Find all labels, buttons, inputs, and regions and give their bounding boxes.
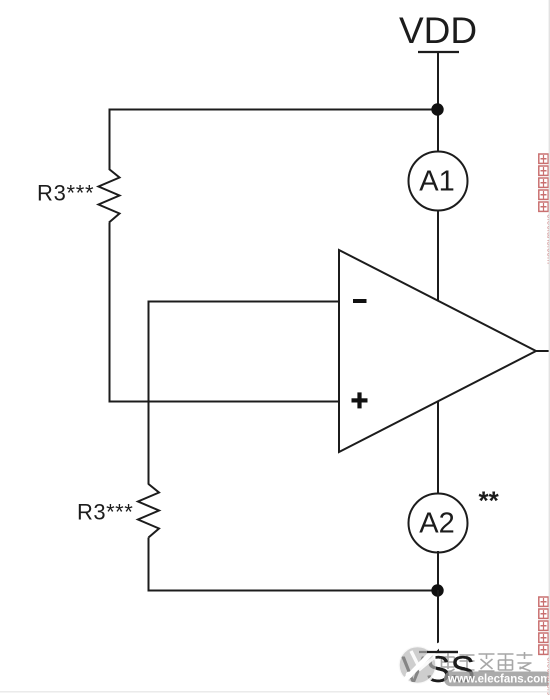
watermark logo circle bottom right xyxy=(399,645,440,684)
wire bottom horizontal to node B xyxy=(148,590,438,592)
wire resistor R3 (top) bottom down to plus input level xyxy=(109,223,111,403)
svg-text:R3***: R3*** xyxy=(37,181,94,206)
watermark url band www.elecfans.com xyxy=(444,672,550,687)
junction node B xyxy=(431,584,443,596)
wire node A horizontal to resistor R3 (top) xyxy=(110,109,438,111)
wire ammeter A2 to node B xyxy=(437,551,439,591)
VSS power rail bar xyxy=(419,651,458,653)
wire ammeter A1 to ammeter A2 through op-amp xyxy=(437,209,439,495)
wire node B to VSS rail xyxy=(437,590,439,651)
watermark chinese characters (stylized strokes) xyxy=(442,652,533,671)
wire node A down to resistor R3 top xyxy=(109,109,111,170)
VDD power rail bar xyxy=(418,51,459,53)
wire VDD rail to ammeter A1 xyxy=(437,52,439,153)
wire to op-amp plus input xyxy=(109,401,341,403)
wire op-amp output stub xyxy=(536,350,550,352)
op-amp U1 minus input symbol xyxy=(353,299,367,303)
watermark vertical red text lower right xyxy=(539,597,548,654)
svg-text:www.elecfans.com: www.elecfans.com xyxy=(447,674,550,686)
VSS rail bar redraw over watermark xyxy=(427,651,458,653)
right edge border xyxy=(548,0,550,695)
ammeter A1 xyxy=(409,152,468,211)
op-amp U1 triangle xyxy=(339,250,536,452)
svg-text:A1: A1 xyxy=(419,166,454,198)
wire minus input down to resistor R3 (bottom) xyxy=(148,301,150,485)
svg-text:R3***: R3*** xyxy=(77,500,133,525)
op-amp U1 plus input symbol xyxy=(352,398,368,402)
svg-text:A2: A2 xyxy=(419,508,454,540)
resistor R3 (bottom) zigzag body xyxy=(138,484,159,538)
resistor R3 (top) zigzag body xyxy=(99,169,120,223)
svg-text:**: ** xyxy=(479,486,500,516)
bottom edge border xyxy=(0,691,550,693)
junction node A xyxy=(431,103,443,115)
wire op-amp minus input horizontal xyxy=(148,301,341,303)
watermark vertical red text upper right xyxy=(539,154,548,211)
wire resistor R3 (bottom) to bottom rail xyxy=(148,538,150,592)
ammeter A2 xyxy=(409,494,468,553)
svg-text:VDD: VDD xyxy=(399,10,477,51)
